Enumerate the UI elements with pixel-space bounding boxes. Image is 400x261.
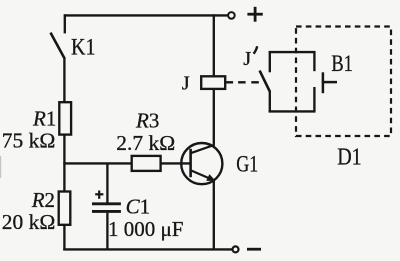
svg-text:D1: D1 — [337, 144, 362, 170]
terminal + (open circle) — [228, 12, 235, 19]
svg-text:J: J — [243, 48, 251, 70]
wire loop top (J' to B1) — [269, 51, 316, 53]
wire relay J to top rail — [213, 14, 215, 76]
wire R2 to bottom rail — [63, 225, 65, 251]
transistor G1 circle — [181, 143, 222, 184]
svg-text:G1: G1 — [236, 152, 258, 177]
transistor G1 emitter line — [191, 170, 215, 180]
mechanical link dash 1 — [238, 81, 246, 83]
label + (positive supply sign) — [247, 7, 262, 22]
wire top horizontal (+ rail) — [64, 14, 228, 16]
contact J' upper fixed lead — [269, 51, 271, 72]
wire loop right upper — [313, 51, 315, 71]
resistor R1 body — [59, 102, 71, 134]
wire bottom horizontal (- rail) — [63, 248, 232, 250]
svg-text:B1: B1 — [331, 51, 353, 76]
wire node A to C1 — [106, 163, 108, 203]
terminal - (open circle) — [233, 246, 239, 252]
transistor G1 base bar — [189, 149, 192, 177]
svg-text:1 000 μF: 1 000 μF — [108, 217, 183, 241]
resistor R3 body — [132, 156, 161, 171]
wire R1 to node A — [63, 135, 65, 192]
wire R3 to base — [161, 162, 191, 164]
resistor R2 body — [59, 192, 71, 225]
battery B1 plate — [322, 72, 325, 93]
wire collector to relay J — [213, 89, 215, 146]
mechanical link dash 2 — [251, 81, 258, 83]
svg-text:R2: R2 — [31, 188, 55, 212]
label J prime mark — [254, 46, 258, 54]
svg-text:2.7 kΩ: 2.7 kΩ — [116, 131, 175, 155]
wire C1 to bottom rail — [106, 213, 108, 250]
C1 polarity + sign — [95, 191, 103, 199]
wire loop bottom — [269, 110, 316, 112]
relay J armature stub — [225, 81, 233, 83]
svg-text:K1: K1 — [71, 35, 96, 61]
label - (negative supply sign) — [247, 248, 261, 251]
svg-text:C1: C1 — [126, 194, 151, 218]
wire switch to R1 — [63, 57, 65, 103]
relay coil J body — [201, 76, 225, 89]
capacitor C1 top plate — [92, 202, 121, 205]
dashed enclosure D1 — [296, 27, 391, 137]
capacitor C1 bottom plate — [92, 210, 121, 213]
svg-text:J: J — [182, 73, 190, 95]
transistor G1 collector line — [191, 145, 215, 153]
wire loop right lower — [313, 87, 315, 113]
svg-text:R3: R3 — [135, 108, 159, 132]
scan artifact left edge — [0, 156, 1, 178]
switch K1 blade — [51, 33, 65, 58]
wire node A to R3 — [63, 162, 131, 164]
transistor G1 emitter arrowhead — [206, 174, 215, 181]
contact J' blade — [260, 71, 270, 92]
contact J' lower lead — [269, 91, 271, 113]
svg-text:75 kΩ: 75 kΩ — [2, 129, 56, 153]
battery B1 lead — [322, 81, 337, 84]
svg-text:20 kΩ: 20 kΩ — [2, 210, 56, 234]
wire left rail upper segment — [64, 14, 66, 33]
svg-text:R1: R1 — [32, 106, 56, 130]
wire emitter to bottom rail — [213, 181, 215, 250]
